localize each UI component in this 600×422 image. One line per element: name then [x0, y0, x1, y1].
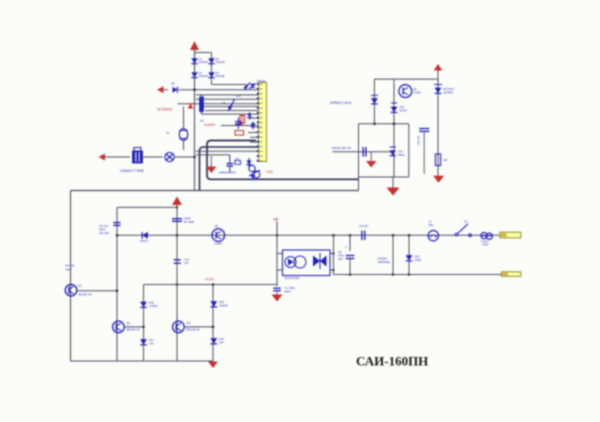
- diode D18: [210, 300, 228, 308]
- svg-text:C10: C10: [184, 257, 189, 261]
- svg-text:CON16: CON16: [257, 79, 266, 83]
- wire x=394: [393, 79, 395, 177]
- capacitor C2: [235, 118, 242, 129]
- svg-text:10k: 10k: [443, 158, 448, 162]
- svg-text:470u: 470u: [338, 254, 344, 258]
- terminal output +: [500, 232, 521, 238]
- svg-text:Q6: Q6: [215, 224, 219, 228]
- diode D5: [171, 82, 178, 93]
- svg-text:D17: D17: [149, 338, 154, 342]
- zener D14: [390, 147, 405, 157]
- wire y=177: [359, 176, 409, 178]
- wire stub y=142.1: [250, 141, 259, 143]
- svg-text:C8: C8: [222, 101, 226, 105]
- diode D13: [434, 85, 454, 95]
- svg-text:1N4148: 1N4148: [199, 74, 209, 78]
- svg-text:D12: D12: [400, 105, 405, 109]
- svg-text:1N4148: 1N4148: [199, 60, 209, 64]
- capacitor C3: [227, 155, 234, 172]
- svg-text:25V: 25V: [338, 257, 343, 261]
- svg-text:D18: D18: [219, 300, 224, 304]
- svg-text:1N58: 1N58: [415, 258, 422, 262]
- svg-text:(PXPR): (PXPR): [444, 91, 454, 95]
- svg-text:1N4937: 1N4937: [149, 304, 159, 308]
- svg-text:LM340T-T7805: LM340T-T7805: [120, 169, 144, 173]
- wire bus inner: [200, 147, 259, 191]
- wire x=408.8: [408, 124, 410, 177]
- capacitor C4: [332, 146, 366, 157]
- svg-text:10k 1W: 10k 1W: [417, 135, 421, 145]
- svg-text:AP8012 CKLA: AP8012 CKLA: [330, 101, 352, 105]
- ground: [387, 177, 400, 196]
- power symbol left LM: [99, 154, 131, 161]
- svg-text:1N4148: 1N4148: [216, 74, 226, 78]
- wire y=290.7: [77, 289, 118, 292]
- svg-text:SF28: SF28: [184, 216, 191, 220]
- ground: [433, 176, 444, 183]
- transistor Q1: [65, 284, 92, 297]
- transistor Q3: [173, 321, 200, 333]
- wire y=157 b: [174, 156, 196, 159]
- diode D2: [191, 71, 208, 78]
- svg-text:10n 630: 10n 630: [99, 231, 110, 235]
- wire y=94.9: [196, 94, 259, 96]
- svg-text:15V: 15V: [149, 342, 154, 346]
- ground: [208, 362, 218, 369]
- svg-text:+310V: +310V: [205, 277, 215, 281]
- transistor Q2: [113, 321, 140, 333]
- svg-text:Q2: Q2: [127, 321, 131, 325]
- wire y=361: [71, 360, 214, 362]
- capacitor C7: [273, 285, 295, 295]
- svg-text:1n0: 1n0: [184, 261, 189, 265]
- svg-text:FR107: FR107: [400, 108, 408, 112]
- crystal X1: [166, 107, 188, 151]
- svg-text:C3150: C3150: [413, 90, 421, 94]
- svg-text:R5: R5: [200, 119, 204, 123]
- wire x=438: [437, 79, 439, 177]
- svg-text:15V: 15V: [219, 341, 224, 345]
- wire y=123.8: [359, 123, 409, 126]
- transistor Q6: [212, 224, 225, 246]
- label SMBJ: [219, 170, 236, 174]
- wire stub y=118.1: [250, 117, 259, 119]
- svg-text:L1: L1: [429, 220, 432, 224]
- transistor Q4 cluster: [249, 165, 260, 179]
- diode D11: [246, 158, 251, 168]
- diode D17: [140, 338, 154, 346]
- capacitor C8 electrolytic: [338, 235, 354, 274]
- meter PA1: [481, 233, 493, 247]
- svg-text:30A: 30A: [429, 223, 434, 227]
- svg-text:630V: 630V: [285, 290, 292, 294]
- inductor L1: [428, 220, 438, 241]
- svg-text:1M025 (60-75): 1M025 (60-75): [332, 146, 352, 150]
- wire y=106.5: [202, 106, 259, 108]
- label +15V: [266, 170, 274, 174]
- wire stub y=132.5: [248, 132, 259, 134]
- svg-text:X1: X1: [166, 131, 170, 135]
- svg-text:D14: D14: [398, 150, 403, 154]
- wire stub y=52.5: [195, 52, 212, 54]
- wire y=110.5: [205, 110, 259, 112]
- svg-text:Q3: Q3: [187, 321, 191, 325]
- switch S1: [455, 220, 471, 237]
- capacitor C6: [172, 216, 194, 223]
- transistor Q5: [399, 85, 421, 98]
- wire x=277: [276, 222, 278, 285]
- label U5 red: [274, 217, 279, 221]
- connector CN1: [257, 79, 267, 162]
- svg-text:C8: C8: [338, 250, 342, 254]
- diode D19: [210, 337, 224, 345]
- ground: [366, 152, 377, 168]
- wire opto pins right: [330, 254, 334, 271]
- diode D9: [249, 84, 256, 90]
- capacitor C5: [99, 223, 121, 236]
- label R5: [200, 94, 241, 123]
- svg-text:D16: D16: [149, 301, 154, 305]
- svg-text:(HER508): (HER508): [378, 260, 391, 264]
- svg-text:KIA494: KIA494: [204, 123, 215, 127]
- title CAI-160PN: [356, 354, 428, 369]
- diode D8: [244, 83, 251, 91]
- svg-text:D20: D20: [415, 255, 420, 259]
- zener D23: [371, 95, 378, 104]
- diode D21: [247, 112, 252, 120]
- wire trunk x=194.5: [194, 53, 196, 191]
- diode D7: [228, 100, 235, 112]
- svg-text:Q5: Q5: [413, 87, 417, 91]
- resistor R4: [235, 131, 244, 136]
- wire y=151.8: [333, 151, 394, 153]
- svg-text:75mV: 75mV: [482, 243, 489, 247]
- zener D12: [391, 103, 408, 112]
- component U3: [235, 158, 241, 165]
- svg-text:D5: D5: [171, 82, 175, 86]
- varistor RV1: [165, 152, 174, 161]
- wire stub y=146.9: [250, 146, 259, 148]
- svg-text:Q1: Q1: [78, 284, 82, 288]
- wire x=393: [392, 235, 394, 274]
- wire y=235.3: [116, 234, 500, 237]
- wire x=374.4: [373, 79, 375, 124]
- ground: [206, 156, 216, 173]
- svg-text:S1: S1: [464, 220, 468, 224]
- wire x=145: [143, 285, 145, 362]
- terminal output -: [502, 272, 521, 277]
- wire x=213: [212, 285, 214, 362]
- wire y=114.1: [202, 113, 259, 115]
- svg-text:BD135-16: BD135-16: [127, 328, 140, 332]
- svg-text:BC307-46: BC307-46: [79, 292, 92, 296]
- label U4: [330, 101, 352, 105]
- power +310V symbol: [172, 197, 182, 236]
- svg-text:U5: U5: [274, 217, 279, 221]
- wire y=154.9: [196, 154, 230, 156]
- svg-text:+15V: +15V: [266, 170, 274, 174]
- svg-text:D10: D10: [236, 94, 241, 98]
- diode D20: [406, 235, 422, 274]
- wire bus outer: [207, 141, 359, 180]
- diode D16: [140, 301, 159, 309]
- label KIA494: [204, 123, 215, 127]
- wire y=99.2: [196, 98, 259, 100]
- diode D22: [251, 122, 256, 130]
- svg-text:BYT08P: BYT08P: [184, 220, 194, 224]
- wire opto pins left: [277, 254, 283, 271]
- diode D6: [188, 104, 194, 109]
- label D20: [378, 257, 391, 265]
- wire y=89.7: [179, 88, 259, 91]
- wire x=211.5: [211, 53, 213, 85]
- svg-text:SMBJ440CA: SMBJ440CA: [219, 170, 236, 174]
- diode D4: [208, 71, 225, 78]
- power symbol left Vcc: [157, 86, 168, 93]
- wire y=103.7: [178, 103, 259, 105]
- wire y=157: [143, 156, 164, 158]
- wire y=125.5: [221, 125, 259, 127]
- wire y=207.4: [117, 206, 178, 208]
- svg-text:+: +: [345, 246, 347, 250]
- wire y=151.3: [196, 150, 259, 152]
- wire y=79.1: [374, 78, 438, 80]
- label R9: [65, 264, 74, 272]
- svg-text:HCPL3120: HCPL3120: [285, 276, 300, 280]
- svg-text:C9 104: C9 104: [359, 224, 368, 228]
- resistor R6: [435, 154, 448, 166]
- svg-text:1k0: 1k0: [65, 267, 70, 271]
- svg-text:1uF: 1uF: [235, 158, 240, 161]
- svg-text:P6KE: P6KE: [398, 153, 405, 157]
- wire x=117: [116, 207, 118, 361]
- resistor R2: [200, 95, 204, 114]
- wire Q3 base: [184, 326, 214, 329]
- wire rail x=70.5: [70, 191, 72, 362]
- optocoupler U6: [283, 250, 331, 280]
- power +310V symbol: [190, 41, 199, 53]
- power +15V symbol: [434, 64, 443, 79]
- svg-text:1N4937: 1N4937: [219, 304, 229, 308]
- resistor R7: [417, 129, 430, 174]
- diode D3: [208, 57, 225, 64]
- svg-text:K2645: K2645: [215, 241, 223, 245]
- diode D15: [140, 232, 149, 243]
- IC U1 label: [157, 108, 173, 112]
- wire x=358.5: [358, 124, 360, 191]
- wire x=333.5: [332, 235, 334, 274]
- regulator U2: [120, 148, 144, 173]
- wire y=274.5: [334, 273, 502, 276]
- wire stub y=137.3: [250, 136, 259, 138]
- ground: [272, 295, 283, 302]
- svg-text:D19: D19: [219, 337, 224, 341]
- wire top of middle box: [71, 190, 359, 192]
- wire x=177 lower: [176, 235, 178, 361]
- svg-text:BD140-16: BD140-16: [187, 328, 200, 332]
- svg-text:FR207: FR207: [140, 239, 149, 243]
- label +310V red: [205, 277, 215, 281]
- wire y=284.5: [144, 283, 278, 286]
- svg-text:1N4148: 1N4148: [216, 60, 226, 64]
- resistor R3: [240, 114, 245, 125]
- svg-text:MC3842B: MC3842B: [157, 108, 173, 112]
- wire Q2 base: [124, 326, 145, 329]
- capacitor C10: [174, 255, 190, 268]
- svg-text:САИ-160ПН: САИ-160ПН: [356, 354, 428, 369]
- diode D1: [191, 57, 208, 64]
- capacitor C9: [359, 224, 368, 240]
- wire y=84.5: [212, 84, 248, 86]
